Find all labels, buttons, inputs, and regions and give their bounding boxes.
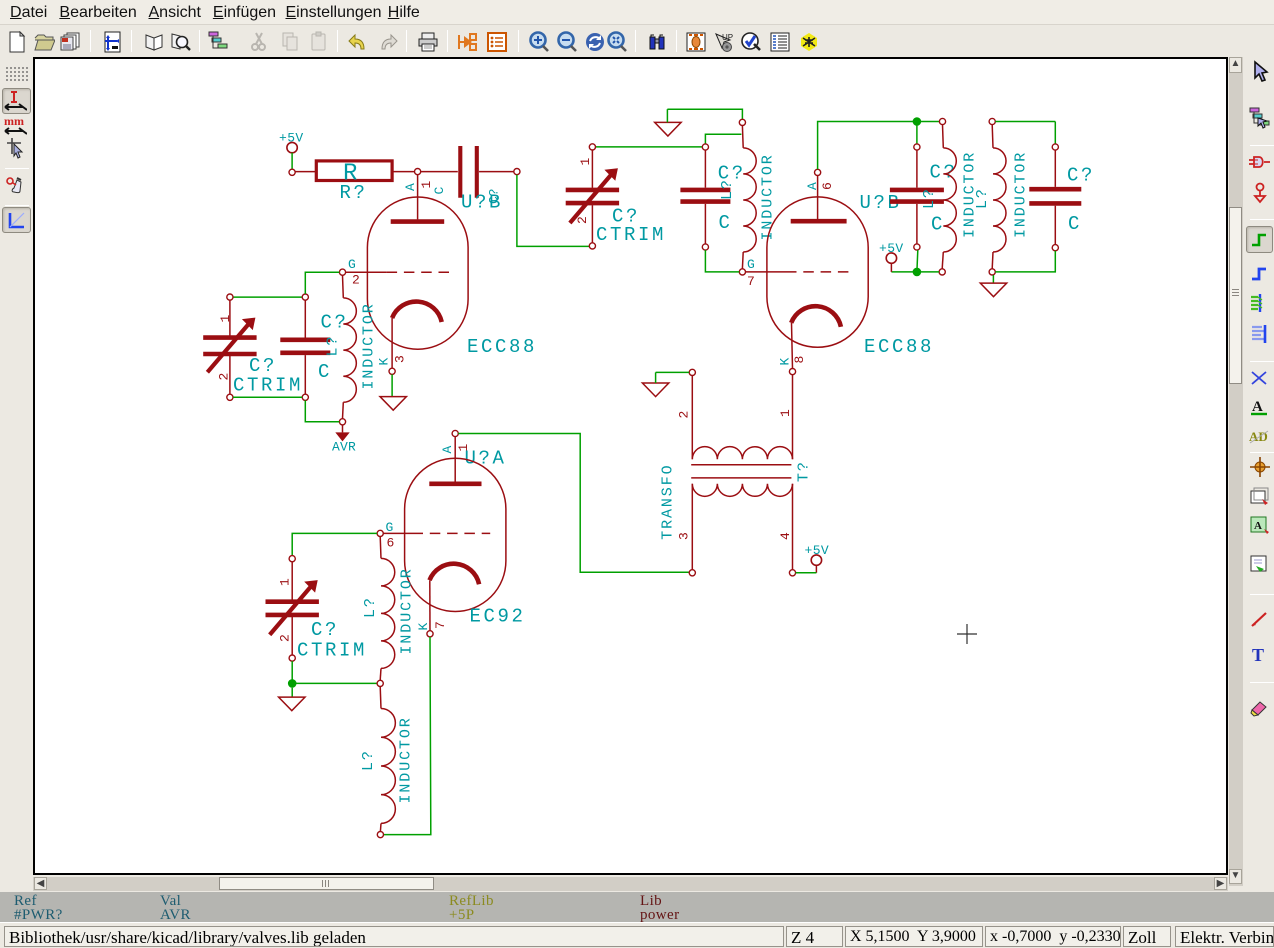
svg-text:T?: T?	[796, 460, 813, 482]
svg-text:U?A: U?A	[465, 448, 507, 470]
svg-text:2: 2	[278, 634, 293, 642]
svg-text:L?: L?	[325, 335, 342, 357]
svg-text:+5V: +5V	[805, 543, 830, 558]
svg-text:CTRIM: CTRIM	[233, 375, 303, 397]
svg-text:CTRIM: CTRIM	[297, 640, 367, 662]
svg-text:ECC88: ECC88	[864, 336, 934, 358]
svg-text:3: 3	[393, 355, 408, 363]
svg-text:8: 8	[792, 356, 807, 364]
svg-text:TRANSFO: TRANSFO	[660, 463, 677, 539]
svg-text:1: 1	[419, 181, 434, 189]
svg-text:INDUCTOR: INDUCTOR	[361, 302, 378, 389]
svg-text:7: 7	[433, 621, 448, 629]
svg-text:1: 1	[218, 315, 233, 323]
svg-text:1: 1	[578, 158, 593, 166]
svg-text:L?: L?	[362, 596, 379, 618]
svg-text:1: 1	[778, 409, 793, 417]
svg-text:2: 2	[352, 273, 360, 288]
svg-text:AVR: AVR	[332, 440, 356, 455]
svg-text:U?B: U?B	[461, 192, 503, 214]
svg-text:INDUCTOR: INDUCTOR	[398, 716, 415, 803]
svg-text:L?: L?	[360, 749, 377, 771]
svg-text:UP: UP	[722, 33, 733, 42]
svg-text:INDUCTOR: INDUCTOR	[760, 153, 777, 240]
svg-text:C?: C?	[1067, 165, 1095, 187]
svg-text:C: C	[1068, 213, 1082, 235]
svg-text:A: A	[403, 183, 418, 191]
svg-text:A: A	[440, 446, 455, 454]
svg-text:+5V: +5V	[279, 131, 304, 146]
svg-text:C: C	[318, 361, 332, 383]
svg-text:C?: C?	[930, 162, 958, 184]
svg-text:A: A	[805, 182, 820, 190]
svg-text:R?: R?	[340, 182, 368, 204]
svg-text:G: G	[747, 257, 755, 272]
svg-text:A: A	[1252, 399, 1263, 415]
svg-text:2: 2	[575, 216, 590, 224]
svg-text:C?: C?	[311, 619, 339, 641]
svg-text:C: C	[719, 212, 733, 234]
svg-text:K: K	[778, 358, 793, 366]
svg-text:G: G	[348, 257, 356, 272]
svg-text:mm: mm	[4, 114, 24, 128]
svg-text:3: 3	[677, 532, 692, 540]
svg-text:L?: L?	[921, 187, 938, 209]
svg-text:L?: L?	[974, 187, 991, 209]
svg-text:INDUCTOR: INDUCTOR	[1013, 151, 1030, 238]
svg-text:K: K	[377, 358, 392, 366]
svg-text:CTRIM: CTRIM	[596, 224, 666, 246]
svg-text:6: 6	[387, 536, 395, 551]
svg-text:T: T	[1252, 645, 1264, 665]
svg-text:ECC88: ECC88	[467, 336, 537, 358]
svg-text:EC92: EC92	[470, 605, 526, 627]
svg-text:4: 4	[778, 532, 793, 540]
svg-text:A: A	[1254, 520, 1262, 532]
svg-text:L?: L?	[719, 178, 736, 200]
svg-text:C?: C?	[321, 312, 349, 334]
svg-text:G: G	[386, 520, 394, 535]
svg-text:INDUCTOR: INDUCTOR	[399, 567, 416, 654]
svg-text:2: 2	[677, 411, 692, 419]
svg-text:1: 1	[278, 578, 293, 586]
svg-text:7: 7	[747, 274, 755, 289]
svg-text:6: 6	[820, 182, 835, 190]
svg-text:2: 2	[217, 373, 232, 381]
svg-text:C: C	[931, 214, 945, 236]
svg-text:K: K	[416, 623, 431, 631]
svg-text:+5V: +5V	[879, 241, 904, 256]
svg-text:C: C	[432, 187, 447, 195]
